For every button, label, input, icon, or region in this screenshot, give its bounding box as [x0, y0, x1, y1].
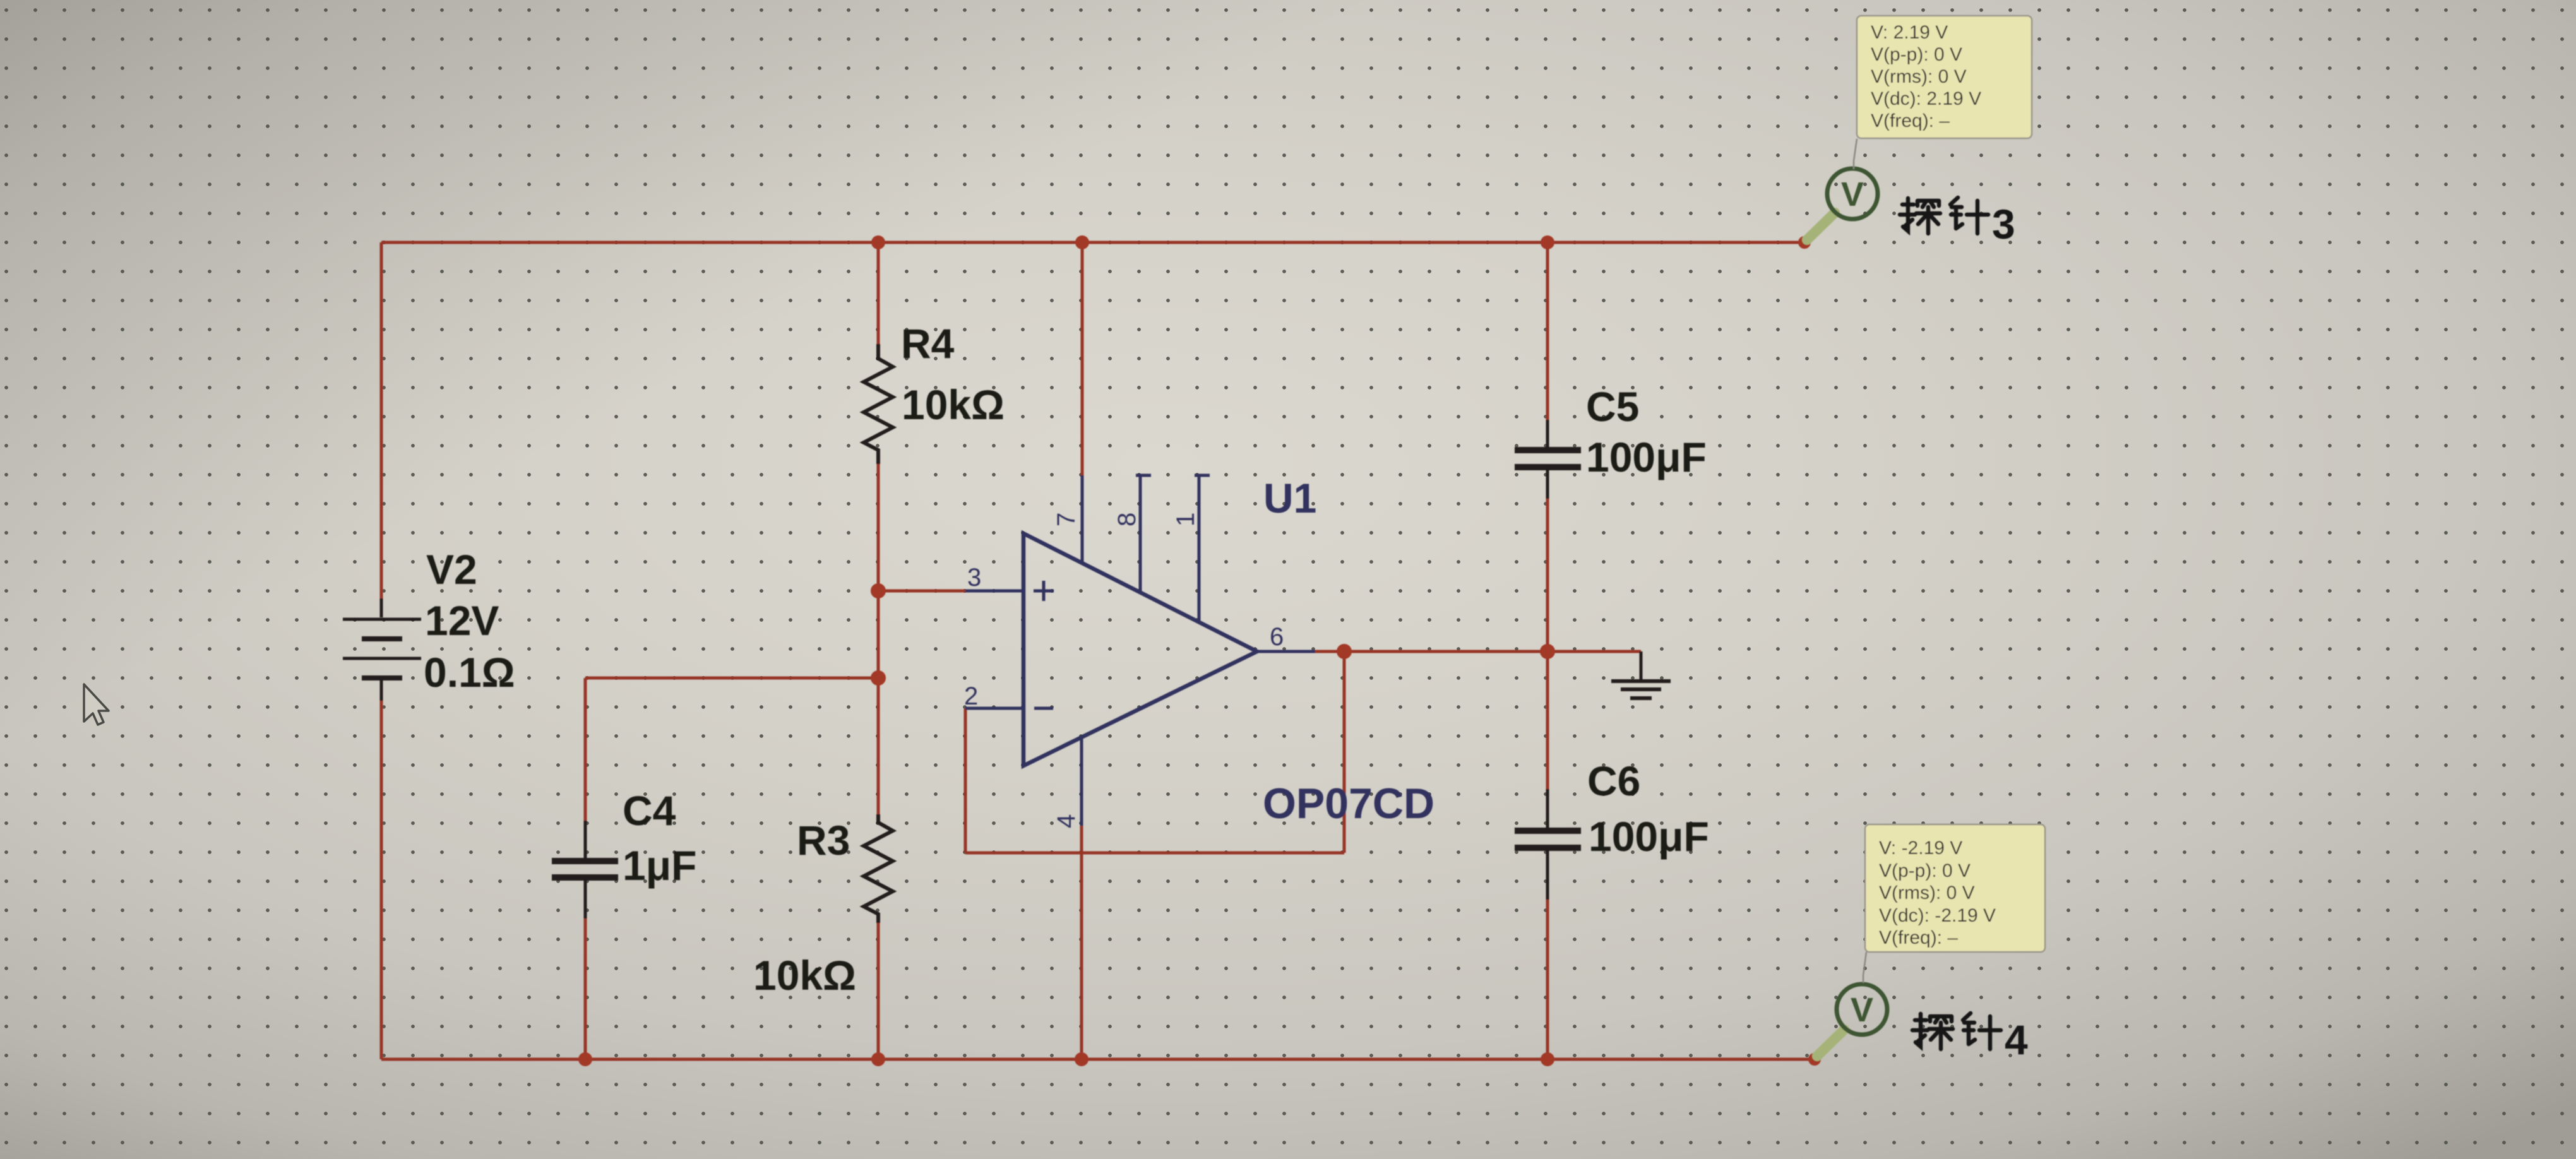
svg-text:R4: R4	[901, 320, 955, 367]
svg-text:4: 4	[1052, 814, 1080, 828]
pin 7 lead	[1081, 475, 1084, 562]
svg-text:V(rms): 0 V: V(rms): 0 V	[1871, 66, 1967, 87]
wire left rail upper (V2 plus lead)	[380, 242, 383, 598]
probe4 V circle	[1837, 984, 1887, 1035]
capacitor C6	[1515, 789, 1581, 900]
svg-text:V: 2.19 V: V: 2.19 V	[1871, 22, 1948, 43]
svg-text:V(p-p): 0 V: V(p-p): 0 V	[1879, 860, 1971, 881]
svg-text:12V: 12V	[425, 597, 499, 644]
svg-text:V(p-p): 0 V: V(p-p): 0 V	[1871, 44, 1962, 65]
wire bottom rail	[381, 1058, 1815, 1061]
node junction top pin7	[1075, 235, 1089, 249]
svg-text:V(rms): 0 V: V(rms): 0 V	[1879, 883, 1975, 903]
node junction bottom C6	[1541, 1052, 1554, 1066]
wire V2/C4 to node A	[585, 677, 878, 680]
ground	[1611, 651, 1671, 698]
svg-text:V(dc): -2.19 V: V(dc): -2.19 V	[1879, 905, 1996, 926]
svg-text:1μF: 1μF	[623, 842, 696, 889]
node probe3 terminal	[1798, 236, 1811, 249]
svg-text:3: 3	[1992, 201, 2015, 247]
capacitor C5	[1515, 420, 1581, 499]
pin 4 lead	[1080, 737, 1083, 826]
svg-text:3: 3	[967, 564, 981, 591]
svg-text:4: 4	[2005, 1016, 2028, 1063]
svg-text:V: V	[1851, 991, 1873, 1029]
probe4 tip	[1817, 1030, 1844, 1056]
svg-text:7: 7	[1052, 513, 1080, 526]
svg-text:10kΩ: 10kΩ	[902, 381, 1005, 428]
svg-text:C6: C6	[1587, 758, 1640, 804]
probe3 name tanzhen3	[1900, 198, 1988, 234]
wire left rail lower (V2 minus lead)	[380, 701, 383, 1059]
svg-text:V(dc): 2.19 V: V(dc): 2.19 V	[1871, 88, 1981, 109]
node junction pin3 tap	[871, 583, 886, 598]
plus sign	[1034, 581, 1054, 601]
wire C5 branch upper	[1546, 242, 1549, 420]
svg-text:10kΩ: 10kΩ	[753, 952, 856, 999]
wire C6 branch lower	[1546, 900, 1549, 1059]
probe4 name tanzhen4	[1912, 1013, 2001, 1049]
wire feedback vertical from pin2	[964, 708, 967, 853]
battery V2 symbol	[343, 598, 421, 701]
node junction bottom pin4	[1075, 1052, 1088, 1066]
probe3 tip	[1807, 213, 1835, 240]
probe4 info box	[1865, 824, 2045, 952]
pin 3 lead	[965, 590, 1023, 593]
wire feedback bottom	[965, 852, 1344, 855]
svg-text:R3: R3	[797, 817, 850, 864]
pin 8 lead	[1136, 475, 1151, 592]
svg-text:100μF: 100μF	[1589, 813, 1709, 860]
pin 6 lead	[1257, 650, 1315, 653]
wire pin7 supply	[1081, 242, 1084, 477]
svg-text:6: 6	[1270, 623, 1284, 651]
svg-text:C5: C5	[1586, 383, 1639, 430]
pin 2 lead	[965, 707, 1023, 710]
svg-text:C4: C4	[623, 787, 676, 834]
node junction bottom R3	[871, 1052, 885, 1066]
resistor R3	[864, 814, 893, 923]
capacitor C4	[552, 821, 618, 918]
wire C4 branch upper	[584, 678, 587, 821]
svg-text:OP07CD: OP07CD	[1263, 780, 1434, 828]
wire C4 branch lower	[584, 918, 587, 1059]
resistor R4	[864, 344, 893, 464]
node A junction mid	[871, 670, 886, 686]
node junction top C5	[1541, 235, 1554, 249]
svg-text:V: -2.19 V: V: -2.19 V	[1879, 838, 1962, 859]
wire top rail	[381, 241, 1804, 244]
svg-text:V2: V2	[426, 546, 477, 593]
node junction bottom C4	[578, 1052, 592, 1066]
svg-text:V: V	[1841, 175, 1864, 213]
svg-text:V(freq): –: V(freq): –	[1871, 110, 1950, 131]
probe3 leader line	[1854, 139, 1857, 169]
node probe4 terminal	[1808, 1053, 1821, 1066]
wire pin4 to bottom rail	[1080, 826, 1083, 1059]
node junction top R4	[871, 235, 885, 249]
node junction output feedback	[1337, 644, 1352, 659]
node junction output C5/C6	[1540, 644, 1555, 659]
wire C6 branch upper	[1546, 651, 1549, 789]
wire node A to R3	[877, 678, 880, 814]
svg-text:1: 1	[1172, 513, 1200, 526]
svg-text:100μF: 100μF	[1586, 434, 1707, 480]
svg-text:0.1Ω: 0.1Ω	[424, 649, 515, 696]
wire feedback up to output	[1343, 651, 1346, 853]
op-amp U1 triangle	[1023, 533, 1257, 766]
mouse cursor	[84, 684, 109, 725]
probe3 V circle	[1827, 169, 1878, 219]
wire output to ground stub	[1315, 650, 1641, 653]
wire pin3 input	[878, 590, 969, 593]
wire C5 branch lower	[1546, 499, 1549, 651]
svg-text:2: 2	[964, 682, 978, 710]
pin 1 lead	[1195, 475, 1210, 622]
svg-text:U1: U1	[1263, 475, 1316, 521]
wire R3 to bottom rail	[877, 923, 880, 1059]
svg-text:8: 8	[1113, 513, 1141, 526]
probe3 info box	[1857, 16, 2032, 138]
svg-text:V(freq): –: V(freq): –	[1879, 927, 1958, 948]
wire R4 branch vertical	[877, 242, 880, 344]
probe4 leader line	[1863, 952, 1866, 983]
wire R4 to node A	[877, 464, 880, 678]
minus sign	[1034, 707, 1053, 710]
